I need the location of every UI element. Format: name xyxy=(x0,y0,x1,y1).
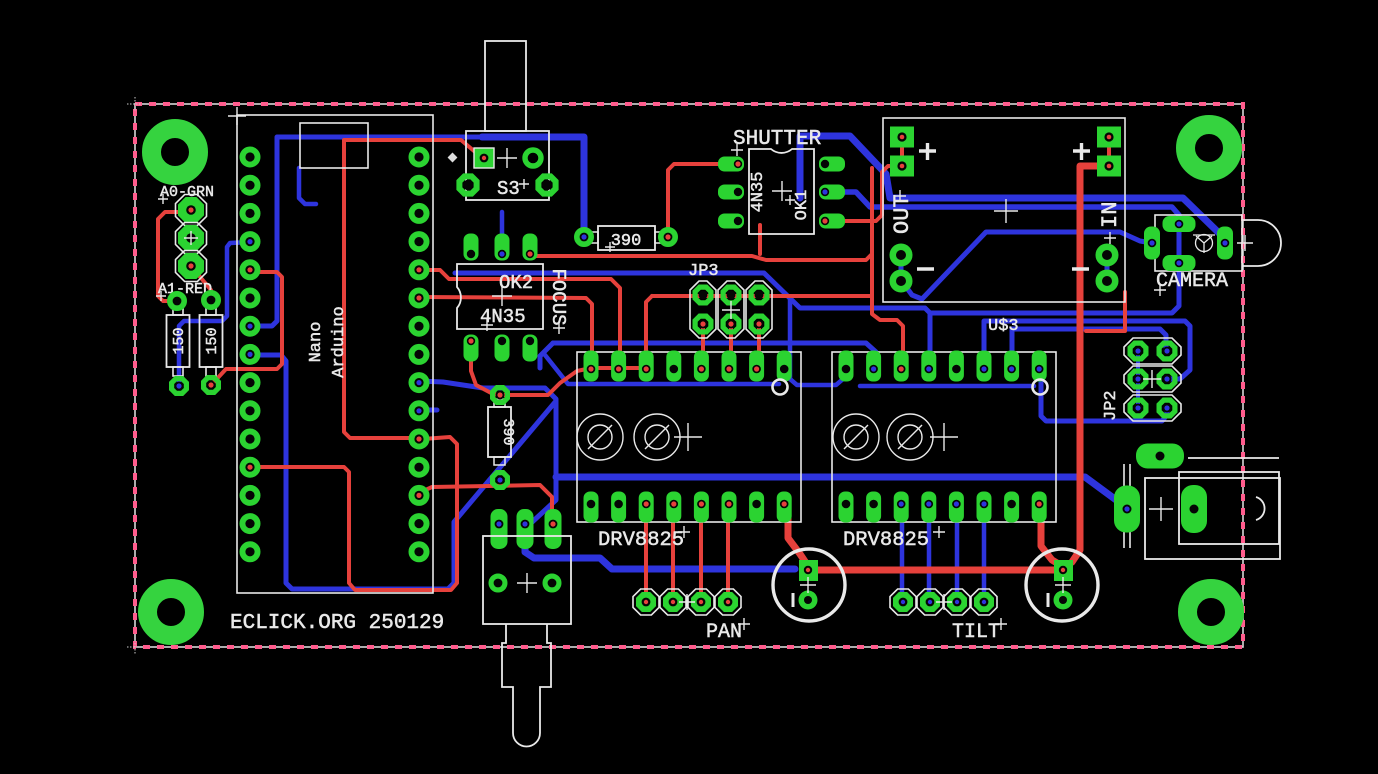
label 4N35 OK2 xyxy=(480,306,526,331)
R3 pad left xyxy=(577,230,591,244)
wire blue OK1 pad5 over DIP xyxy=(800,136,1225,243)
resistor R4 390 body xyxy=(488,399,516,465)
label Arduino xyxy=(330,306,349,377)
OK2 plus small xyxy=(553,322,565,334)
wire red OUT junction to DRV2 pad3 xyxy=(872,254,903,365)
label FOCUS xyxy=(547,268,569,325)
module relay outline xyxy=(883,118,1125,302)
PAN origin cross xyxy=(679,594,695,610)
label OK2 xyxy=(499,272,533,294)
OUT - pads xyxy=(893,247,909,289)
wire blue JP2 left pads column xyxy=(1136,351,1140,408)
label IN xyxy=(1098,202,1123,244)
U$3 pad row bottom xyxy=(839,492,1047,523)
svg-text:PAN: PAN xyxy=(706,621,742,644)
wire blue long under DRVs to power jack xyxy=(556,477,1127,508)
wire red nano to DRV1 pad2 via band y279 xyxy=(418,270,620,365)
label U$3 xyxy=(988,317,1019,336)
label 4N35 OK1 xyxy=(749,172,768,213)
wire red R390 to OK1 pad1 xyxy=(668,164,731,233)
S1 mount pads xyxy=(491,576,558,589)
label CAMERA xyxy=(1154,270,1228,296)
U$3 marker circle xyxy=(1033,380,1048,395)
X1 symbol circle xyxy=(1193,235,1215,254)
TILT origin cross xyxy=(936,594,952,610)
label OK1 xyxy=(793,190,812,221)
OK1 pads right xyxy=(819,157,845,229)
U$2 pad row top xyxy=(584,351,792,382)
wire red nano to DRV1 pad1 xyxy=(418,297,592,365)
wire blue OUT- to camera left pad xyxy=(901,232,1152,299)
P2 origin cross xyxy=(1055,577,1071,593)
wire blue joystick middle to PAN pot xyxy=(525,532,795,569)
wire red DRV1 bottom pads to PAN xyxy=(646,507,728,602)
header JP3 outline xyxy=(690,281,772,338)
label S3 xyxy=(497,178,529,200)
wire red A0 pad3 to R2 xyxy=(191,266,211,300)
label JP2 xyxy=(1102,390,1121,421)
svg-text:150: 150 xyxy=(204,327,221,354)
OK1 plus small xyxy=(785,195,795,205)
R1 pad bottom xyxy=(172,379,187,394)
svg-text:Arduino: Arduino xyxy=(330,306,349,377)
label ECLICK.ORG 250129 xyxy=(230,612,444,635)
svg-text:IN: IN xyxy=(1098,202,1123,228)
svg-text:DRV8825: DRV8825 xyxy=(843,529,929,552)
wire red R390b to DRV1 pad1 area xyxy=(500,368,646,395)
JP2 pads xyxy=(1130,343,1175,416)
potentiometer P2 circle xyxy=(1026,549,1098,621)
origin marker bottom-left xyxy=(127,640,141,654)
label minus IN xyxy=(1072,267,1089,270)
mounting hole bottom-left xyxy=(148,589,195,636)
P1 square pad xyxy=(799,560,818,581)
svg-text:S3: S3 xyxy=(497,178,520,200)
label plus IN xyxy=(1073,143,1090,160)
S3 pad 4 xyxy=(538,176,555,193)
wire blue IN- pads join xyxy=(1105,255,1110,281)
label PAN xyxy=(706,618,750,644)
potentiometer P1 circle xyxy=(773,549,845,621)
wire blue OUT- pads join xyxy=(899,255,904,281)
U1 pin row left xyxy=(243,150,258,559)
dimension dashed border xyxy=(135,104,1243,647)
U$2 hole symbol 1 xyxy=(577,414,623,460)
resistor R2 150 body xyxy=(200,306,223,376)
wire blue camera bottom pad drop xyxy=(1177,224,1182,263)
origin marker top-left xyxy=(127,97,141,111)
wire blue USB shell stub xyxy=(299,168,316,204)
X1 origin cross xyxy=(1237,235,1253,251)
svg-text:SHUTTER: SHUTTER xyxy=(733,128,822,151)
wire red OK2 pad3 band xyxy=(530,168,872,260)
svg-text:OK1: OK1 xyxy=(793,190,812,221)
optocoupler OK2 body xyxy=(457,264,543,329)
wire red USB to nano pad xyxy=(344,140,415,438)
OK2 pads bottom xyxy=(464,335,538,362)
P1 round pad xyxy=(799,591,818,610)
OK2 pads top xyxy=(464,234,538,261)
svg-text:DRV8825: DRV8825 xyxy=(598,529,684,552)
label DRV8825 right xyxy=(843,526,945,552)
U$3 pad row top xyxy=(839,351,1047,382)
U$3 origin cross xyxy=(930,423,958,451)
resistor R3 390 body xyxy=(590,226,663,250)
label SHUTTER xyxy=(731,128,822,156)
U1 origin cross xyxy=(228,107,246,125)
JP3 origin cross xyxy=(722,301,740,319)
svg-text:JP2: JP2 xyxy=(1102,390,1121,421)
IN - pads xyxy=(1099,247,1115,289)
X1 pad bottom xyxy=(1163,255,1196,271)
header TILT pads xyxy=(890,589,997,615)
header JP2 outline xyxy=(1124,338,1181,421)
svg-text:TILT: TILT xyxy=(952,621,1000,644)
wire blue thin under DRV2 pads xyxy=(860,384,1034,389)
mounting hole bottom-right xyxy=(1188,589,1235,636)
wire red nano U loop xyxy=(254,437,457,590)
U$2 hole symbol 2 xyxy=(634,414,680,460)
svg-text:4N35: 4N35 xyxy=(749,172,768,213)
X1 pad left xyxy=(1144,227,1160,260)
wire blue nano pad to joystick middle xyxy=(419,381,556,529)
wire red DRV1 pad8 to PAN pot xyxy=(784,507,808,566)
P2 round pad xyxy=(1054,591,1073,610)
OK1 pads left xyxy=(718,157,744,229)
U$2 origin cross xyxy=(674,423,702,451)
wire red JP3 top row bus xyxy=(646,296,872,365)
header PAN pads xyxy=(633,589,741,615)
svg-text:Nano: Nano xyxy=(307,322,326,363)
svg-text:FOCUS: FOCUS xyxy=(547,268,569,325)
P2 index mark xyxy=(1047,593,1050,607)
wire red DRV2 pad8 to TILT pot xyxy=(1041,507,1062,566)
wire red USB to S3 pad xyxy=(345,140,481,157)
wire blue nano pad410 stub xyxy=(419,408,437,413)
X2 origin cross xyxy=(1149,497,1173,521)
U1 pin row right xyxy=(412,150,427,559)
wire red nano pad to R2 bottom xyxy=(211,272,282,385)
optocoupler OK1 body xyxy=(749,149,814,234)
svg-text:150: 150 xyxy=(171,327,188,354)
JP3 pads xyxy=(695,287,767,332)
label A1-RED xyxy=(156,281,212,301)
JP2 origin cross xyxy=(1143,370,1161,388)
resistor R1 150 body xyxy=(167,306,190,376)
wire blue OK1 pad5 to camera top xyxy=(838,192,1179,224)
S3 origin cross xyxy=(497,148,517,168)
wire blue band y273 to JP3 diagonal xyxy=(455,263,1179,365)
S3 pad 3 xyxy=(459,176,476,193)
wire blue S3 to R390 pad1 xyxy=(251,137,584,326)
wire red OUT+ pads join xyxy=(900,137,904,166)
mounting hole top-right xyxy=(1186,125,1233,172)
U$3 hole symbol 2 xyxy=(887,414,933,460)
wire red OK1 pad4 under body xyxy=(758,225,762,254)
wire blue thin under DRV1 pads xyxy=(545,355,779,384)
label DRV8825 left xyxy=(598,526,690,552)
label Nano xyxy=(307,322,326,363)
wire red IN power vertical xyxy=(1064,166,1097,568)
U$3 hole symbol 1 xyxy=(833,414,879,460)
X2 pad tip xyxy=(1181,485,1207,533)
X2 pad side xyxy=(1136,444,1184,469)
wire red OK1 pad4 to OUT+ xyxy=(838,166,898,221)
R3 pad right xyxy=(661,230,675,244)
connector X2 power jack outline xyxy=(1124,458,1280,559)
svg-text:A0-GRN: A0-GRN xyxy=(160,184,214,201)
label JP3 xyxy=(688,262,719,281)
wire blue DRV2 pad6 up to JP2 xyxy=(984,321,1190,379)
label plus OUT xyxy=(919,143,936,160)
R4 pad top xyxy=(493,388,508,403)
wire red OK2 pad1 to R390b xyxy=(471,351,500,395)
joystick S1 pads top xyxy=(491,509,562,549)
mounting hole top-left xyxy=(152,129,199,176)
P1 origin cross xyxy=(800,577,816,593)
label OUT xyxy=(890,190,915,234)
wire red IN+ pads join xyxy=(1107,137,1111,166)
S1 origin cross xyxy=(517,573,537,593)
label minus OUT xyxy=(917,267,934,270)
wire blue DRV2 pad7 up to JP2 row1 xyxy=(1012,329,1166,365)
module U$3 DRV8825 outline xyxy=(832,352,1056,522)
module U$2 DRV8825 outline xyxy=(577,352,801,522)
S3 pad 2 xyxy=(525,150,541,166)
wire blue between DRV boxes xyxy=(790,299,843,385)
R2 pad top xyxy=(204,293,218,307)
wire blue DRV2 bottom pads to TILT xyxy=(902,507,984,602)
svg-text:OUT: OUT xyxy=(890,194,915,234)
X1 pad top xyxy=(1163,216,1196,232)
wire blue nano pad to R1 bottom xyxy=(179,242,250,386)
R4 pad bottom xyxy=(493,473,508,488)
wire red A0 pad to R1 xyxy=(158,212,186,301)
connector A0-GRN pads xyxy=(176,195,207,282)
wire red JP3 bottom pads down xyxy=(701,324,759,365)
wire blue DRV2 pad8 to JP2 row3 xyxy=(1041,365,1167,421)
OK1 origin cross xyxy=(772,181,792,201)
IN + square pads xyxy=(1097,127,1121,177)
svg-text:OK2: OK2 xyxy=(499,272,533,294)
connector X1 camera outline xyxy=(1155,215,1242,271)
switch S3 outline xyxy=(466,41,549,200)
wire blue OK2 pad2 stub xyxy=(500,212,505,243)
P1 index mark xyxy=(792,593,795,607)
svg-text:CAMERA: CAMERA xyxy=(1156,270,1228,293)
X1 pad right xyxy=(1217,227,1233,260)
svg-text:JP3: JP3 xyxy=(688,262,719,281)
svg-text:390: 390 xyxy=(499,418,516,445)
X2 pad sleeve xyxy=(1114,486,1140,533)
R2 pad bottom xyxy=(204,378,219,393)
X1 barrel outline xyxy=(1242,220,1281,266)
svg-text:390: 390 xyxy=(611,232,642,251)
S3 square pad 1 xyxy=(474,148,494,168)
R1 pad top xyxy=(170,294,184,308)
OUT + square pads xyxy=(890,127,914,177)
OK2 origin cross xyxy=(492,286,512,306)
U$2 marker circle xyxy=(773,380,788,395)
label A0-GRN xyxy=(158,184,214,204)
U$2 pad row bottom xyxy=(584,492,792,523)
P2 square pad xyxy=(1054,560,1073,581)
joystick S1 outline xyxy=(483,536,571,747)
svg-text:U$3: U$3 xyxy=(988,317,1019,336)
via near S3 xyxy=(448,153,458,163)
wire blue nano bottom loop xyxy=(250,355,556,589)
label 390 xyxy=(605,232,641,252)
module U1 Arduino Nano outline xyxy=(237,115,433,593)
wire red module edge stub xyxy=(1086,292,1125,331)
relay origin cross xyxy=(994,199,1018,223)
wire blue JP3 bottom bus xyxy=(540,343,876,368)
wire red nano to joystick right pad xyxy=(419,485,552,524)
label TILT xyxy=(952,618,1007,644)
connector USB outline xyxy=(300,123,368,168)
svg-text:ECLICK.ORG 250129: ECLICK.ORG 250129 xyxy=(230,612,444,635)
wire red PAN pot to TILT pot xyxy=(812,567,1054,574)
board outline xyxy=(135,104,1243,647)
